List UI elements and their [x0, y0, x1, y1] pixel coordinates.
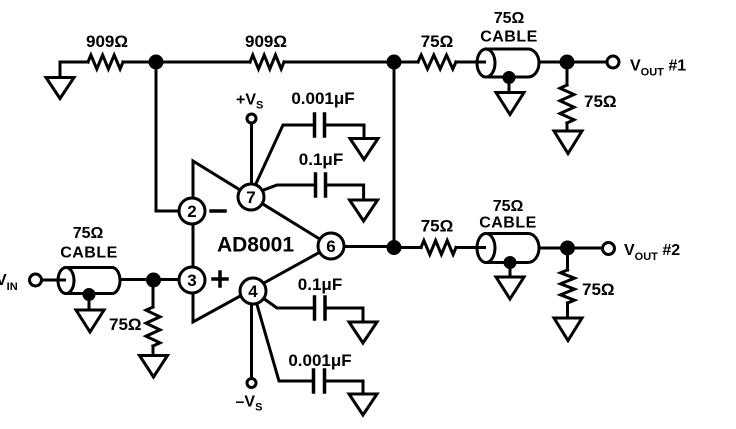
svg-text:+VS: +VS [236, 92, 263, 112]
svg-text:75Ω: 75Ω [73, 225, 104, 242]
svg-text:VOUT #1: VOUT #1 [630, 58, 686, 79]
svg-text:–VS: –VS [236, 394, 263, 414]
svg-text:75Ω: 75Ω [109, 315, 142, 334]
svg-text:75Ω: 75Ω [493, 198, 524, 215]
svg-text:75Ω: 75Ω [421, 217, 454, 236]
svg-text:75Ω: 75Ω [494, 10, 525, 27]
svg-text:75Ω: 75Ω [421, 32, 454, 51]
svg-text:909Ω: 909Ω [86, 32, 128, 51]
svg-text:AD8001: AD8001 [217, 234, 294, 257]
svg-text:CABLE: CABLE [479, 215, 537, 232]
svg-text:0.001μF: 0.001μF [291, 89, 354, 108]
svg-text:0.1μF: 0.1μF [298, 275, 342, 294]
svg-text:CABLE: CABLE [480, 29, 538, 46]
svg-text:7: 7 [246, 188, 255, 207]
svg-text:0.001μF: 0.001μF [288, 351, 351, 370]
svg-text:3: 3 [187, 271, 196, 290]
svg-text:CABLE: CABLE [60, 245, 118, 262]
svg-text:75Ω: 75Ω [582, 280, 615, 299]
svg-text:VOUT #2: VOUT #2 [624, 242, 680, 263]
svg-text:VIN: VIN [0, 272, 18, 293]
svg-text:4: 4 [248, 282, 258, 301]
svg-text:2: 2 [187, 202, 196, 221]
svg-text:0.1μF: 0.1μF [299, 150, 343, 169]
svg-text:75Ω: 75Ω [584, 92, 617, 111]
svg-text:6: 6 [326, 237, 335, 256]
svg-text:909Ω: 909Ω [245, 32, 287, 51]
